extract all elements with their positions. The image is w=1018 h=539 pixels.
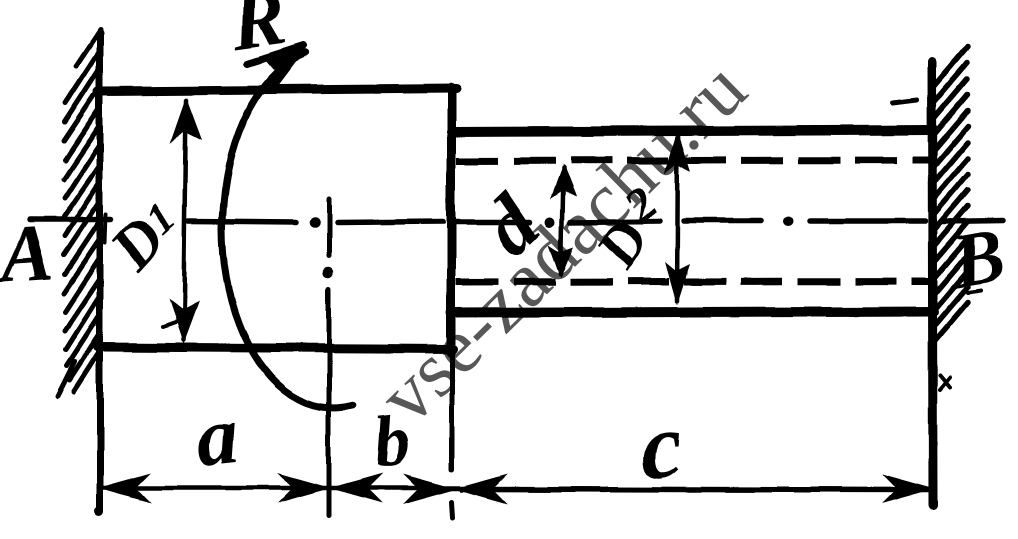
dim arrow right of a [281, 475, 327, 501]
label D1 [97, 204, 178, 284]
bottom dimension line [101, 486, 460, 491]
small tick below D1 arrow [162, 322, 176, 327]
svg-text:R: R [225, 0, 291, 68]
torque arc R [222, 53, 352, 408]
tube bore dashed top line [456, 160, 930, 161]
wall B hatching [934, 46, 968, 342]
dim arrow left of b [333, 475, 379, 501]
center line (dash-dot axis) [30, 220, 1004, 223]
centerline tick at wall A [105, 215, 106, 243]
tube bore dashed bottom line [456, 281, 930, 282]
svg-text:a: a [191, 388, 242, 485]
dim arrow left of a [102, 475, 148, 501]
big shaft rectangle right edge (step) [447, 87, 456, 352]
tube outer bottom line [451, 311, 934, 313]
tube outer top line [451, 130, 934, 132]
d dimension arrow [561, 168, 563, 274]
extension line at step x=452 [450, 355, 455, 470]
big shaft rectangle top edge [98, 88, 456, 91]
small tick near wall B top [893, 100, 917, 103]
big shaft rectangle bottom edge [98, 347, 453, 349]
dim arrow right of c [885, 476, 931, 502]
center line dots [310, 217, 321, 228]
wall B bottom dot [929, 502, 937, 510]
wall A line [97, 33, 104, 511]
small mark on wall B lower [940, 376, 950, 390]
label d [464, 177, 557, 272]
tick below label B [968, 290, 981, 292]
D2 dimension arrow [677, 134, 678, 301]
dim arrow left of c [458, 476, 504, 502]
torque application axis line at x=329 [327, 199, 332, 516]
wall A bottom dot [95, 508, 104, 517]
wall B line [932, 62, 933, 506]
svg-text:c: c [635, 393, 686, 499]
torque axis dot [323, 267, 334, 278]
dim arrow right of b [406, 476, 452, 502]
label D2 [584, 208, 662, 280]
wall A hatching [58, 30, 101, 396]
torque arc arrowhead [248, 46, 304, 87]
watermark vse-zadachu.ru [363, 45, 763, 441]
D1 dimension arrow [183, 100, 186, 340]
